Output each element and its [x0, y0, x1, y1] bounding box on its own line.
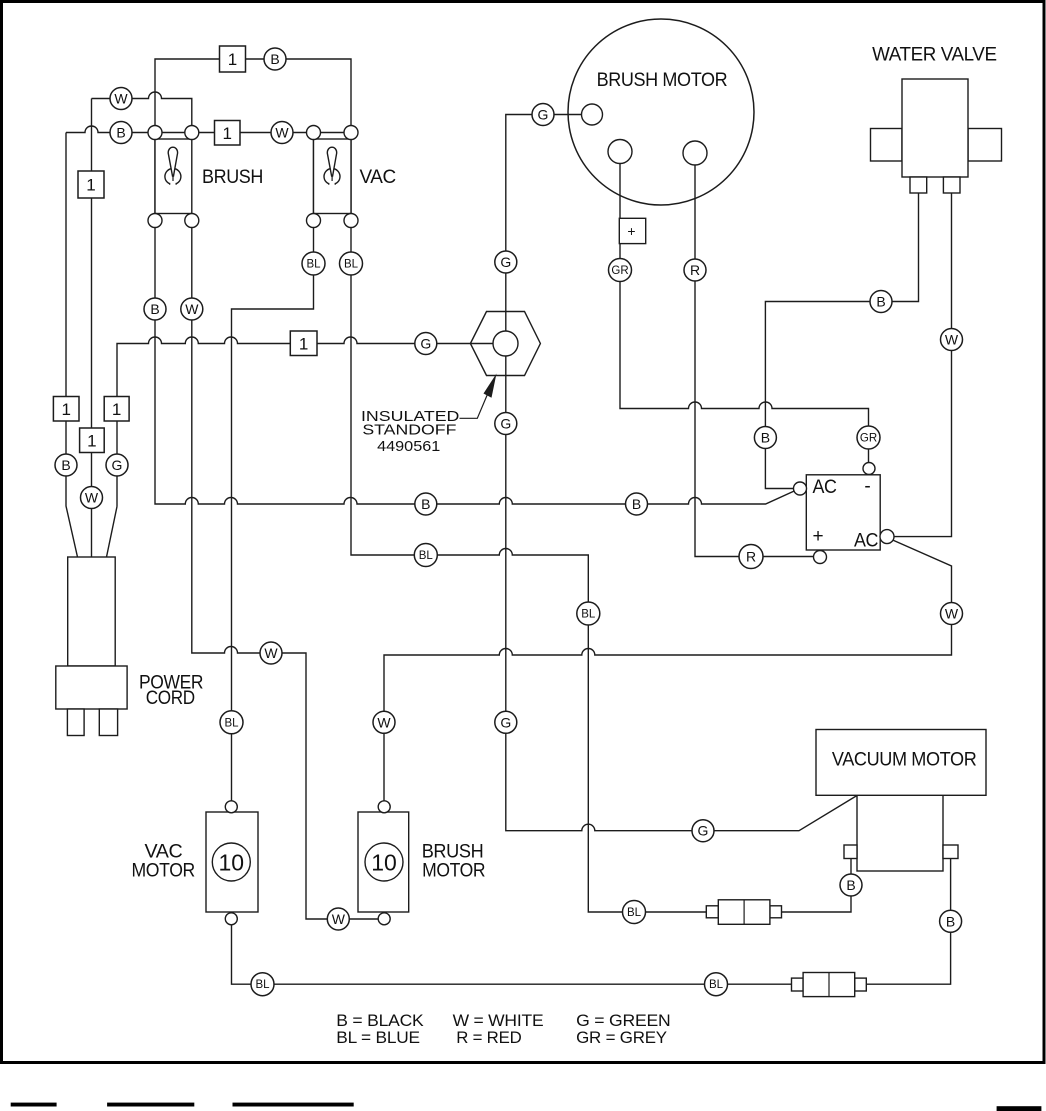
svg-text:BRUSH: BRUSH	[422, 842, 484, 863]
connector 1 top row	[220, 46, 246, 72]
svg-text:W: W	[275, 125, 289, 141]
svg-text:BRUSH: BRUSH	[202, 167, 263, 188]
connector 1 on white lead x91 lower	[80, 428, 105, 453]
svg-text:W: W	[945, 606, 959, 622]
node G row 830	[692, 820, 714, 842]
node B on valve-AC lead	[754, 427, 776, 449]
svg-text:R: R	[746, 549, 756, 565]
node R row 556	[739, 545, 763, 569]
node B left column	[55, 454, 77, 476]
node B lower fuse row	[940, 910, 962, 932]
svg-text:GR: GR	[860, 433, 877, 445]
node BL upper fuse row	[623, 901, 646, 924]
plus box on grey lead	[619, 218, 645, 243]
node BL x=231	[220, 711, 243, 734]
node BL bottom row left	[251, 973, 274, 996]
svg-text:CORD: CORD	[146, 688, 195, 709]
connector 1 on black lead x66	[53, 397, 79, 422]
node W row3	[271, 122, 293, 144]
wire vertical black lead x=66	[66, 133, 78, 558]
svg-text:G: G	[500, 416, 511, 432]
svg-text:B: B	[761, 430, 770, 446]
svg-text:G: G	[500, 714, 511, 730]
node B upper fuse row	[840, 874, 862, 896]
node W water valve lead	[941, 329, 963, 351]
wire vac switch left leg BL to vac motor	[232, 133, 314, 807]
node B row3	[110, 122, 132, 144]
vacuum motor body	[857, 795, 943, 871]
brush motor box (lower)	[358, 812, 409, 912]
svg-text:BL: BL	[255, 979, 270, 991]
wire W row top-left	[92, 92, 192, 133]
switch BRUSH toggle	[165, 169, 181, 185]
svg-text:G: G	[420, 336, 431, 352]
fuse F1 upper	[706, 906, 718, 918]
svg-text:W: W	[332, 911, 346, 927]
wire vac switch right leg BL to fuse row	[351, 133, 851, 913]
node W brush right leg	[181, 298, 203, 320]
brush motor terminals	[582, 104, 603, 125]
svg-text:BL: BL	[627, 907, 642, 919]
svg-text:WATER VALVE: WATER VALVE	[872, 45, 997, 66]
node W left column	[81, 487, 103, 509]
svg-text:GR: GR	[611, 265, 628, 277]
connector 1 on green lead x117	[104, 397, 129, 422]
node B brush left leg	[144, 298, 166, 320]
svg-text:1: 1	[222, 124, 231, 143]
connector 1 row 132	[215, 121, 241, 146]
svg-text:+: +	[812, 526, 823, 547]
svg-text:1: 1	[87, 432, 96, 451]
svg-text:W: W	[377, 714, 391, 730]
wire red lead from brush motor terminal to AC plus pin	[695, 153, 820, 557]
svg-text:1: 1	[228, 50, 237, 69]
water valve body	[871, 129, 903, 162]
wire B row y=132	[66, 126, 351, 132]
svg-text:B: B	[150, 301, 159, 317]
svg-text:B: B	[116, 125, 125, 141]
node G row 343	[415, 333, 437, 355]
svg-text:1: 1	[86, 176, 95, 195]
wire grey lead from brush motor terminal to AC minus pin	[620, 152, 869, 469]
node GR on grey lead	[609, 259, 632, 282]
svg-text:MOTOR: MOTOR	[132, 861, 195, 882]
svg-text:BRUSH MOTOR: BRUSH MOTOR	[597, 70, 728, 91]
svg-text:BL: BL	[581, 609, 596, 621]
svg-text:R = RED: R = RED	[456, 1028, 521, 1047]
node B water valve lead	[870, 291, 892, 313]
node W row 653	[260, 642, 282, 664]
node junction hex standoff	[470, 312, 540, 376]
svg-text:W: W	[185, 301, 199, 317]
wire brush switch left leg to B row y=504	[155, 133, 798, 505]
node W x=384	[373, 711, 395, 733]
svg-text:B: B	[846, 877, 855, 893]
svg-text:B: B	[946, 913, 955, 929]
wire leader arrow to standoff	[460, 390, 490, 419]
svg-text:G: G	[500, 254, 511, 270]
svg-text:R: R	[690, 262, 700, 278]
switch VAC terminals	[307, 126, 321, 140]
bottom cropped table rules	[11, 1103, 57, 1107]
switch VAC toggle	[324, 169, 340, 185]
svg-text:BL: BL	[224, 717, 239, 729]
svg-text:G: G	[112, 457, 123, 473]
wire vacuum motor right tab to lower fuse row	[232, 859, 951, 985]
node G below hex	[495, 413, 517, 435]
svg-text:10: 10	[219, 850, 245, 876]
svg-text:1: 1	[299, 335, 308, 354]
wire green main vertical from brush motor to vacuum motor	[506, 115, 857, 831]
AC box pins	[863, 463, 875, 475]
svg-text:1: 1	[112, 400, 121, 419]
power cord plug body	[68, 557, 116, 666]
svg-text:B: B	[61, 457, 70, 473]
svg-text:W: W	[945, 332, 959, 348]
svg-text:BL = BLUE: BL = BLUE	[336, 1028, 420, 1047]
svg-text:BL: BL	[306, 259, 321, 271]
svg-text:W: W	[114, 91, 128, 107]
svg-text:G: G	[538, 107, 549, 123]
AC rectifier box U1	[806, 475, 880, 550]
node BL row 555	[414, 544, 437, 567]
svg-text:VAC: VAC	[145, 842, 183, 863]
node BL x=588	[577, 602, 600, 625]
node B top row	[264, 48, 286, 70]
svg-text:BL: BL	[344, 259, 359, 271]
switch BRUSH body	[155, 139, 192, 214]
connector 1 row 343	[290, 331, 317, 356]
node B row 504 right	[626, 493, 648, 515]
svg-text:BL: BL	[709, 979, 724, 991]
svg-text:-: -	[864, 476, 870, 497]
wire black lead from water valve to AC pin	[765, 193, 918, 489]
svg-text:B: B	[270, 51, 279, 67]
svg-text:+: +	[627, 223, 635, 239]
svg-text:B: B	[876, 294, 885, 310]
node W row2	[110, 88, 132, 110]
node GR at AC minus	[857, 426, 880, 449]
node G top near brush motor	[532, 104, 554, 126]
wire top row node 1-B from brush switch to vac switch	[155, 59, 351, 133]
fuse F2 lower	[792, 978, 804, 991]
svg-text:AC: AC	[854, 531, 878, 552]
wire brush switch right leg to W row y=653	[192, 133, 378, 920]
svg-text:B: B	[421, 496, 430, 512]
vac motor box	[206, 812, 258, 912]
svg-text:G: G	[698, 823, 709, 839]
svg-text:VAC: VAC	[360, 167, 396, 188]
node BL vac right	[340, 252, 363, 275]
node BL vac left	[302, 252, 325, 275]
svg-text:1: 1	[61, 400, 70, 419]
svg-text:GR = GREY: GR = GREY	[576, 1028, 667, 1047]
node G x=505	[495, 711, 517, 733]
svg-text:4490561: 4490561	[377, 438, 440, 455]
svg-text:B: B	[632, 496, 641, 512]
brush motor circle (top)	[568, 19, 754, 205]
node G left column	[106, 454, 128, 476]
wire white lead from AC pin to W row y=655	[384, 540, 952, 807]
svg-text:BL: BL	[419, 550, 434, 562]
svg-text:STANDOFF: STANDOFF	[362, 422, 456, 439]
node W x=951 lower	[941, 603, 963, 625]
svg-text:VACUUM MOTOR: VACUUM MOTOR	[832, 750, 977, 771]
svg-text:AC: AC	[813, 477, 837, 498]
node G above hex	[495, 251, 517, 273]
wire green lead x=117 with row y=343	[107, 337, 494, 557]
vac motor terminals	[225, 801, 237, 813]
svg-text:10: 10	[371, 850, 397, 876]
node W at brush motor bottom	[327, 908, 349, 930]
svg-text:W: W	[85, 490, 99, 506]
wire vertical white lead x=91.5	[91, 99, 93, 558]
svg-text:MOTOR: MOTOR	[422, 861, 485, 882]
node B row 504 left	[415, 493, 437, 515]
wire white lead from water valve to AC pin	[887, 193, 952, 537]
connector 1 on white lead x91	[78, 171, 104, 198]
svg-text:W: W	[264, 645, 278, 661]
switch BRUSH terminals	[148, 126, 162, 140]
node BL bottom row right	[705, 973, 728, 996]
switch VAC body	[314, 139, 352, 214]
brush motor (lower) terminals	[378, 801, 390, 813]
node R on red lead	[684, 259, 706, 281]
